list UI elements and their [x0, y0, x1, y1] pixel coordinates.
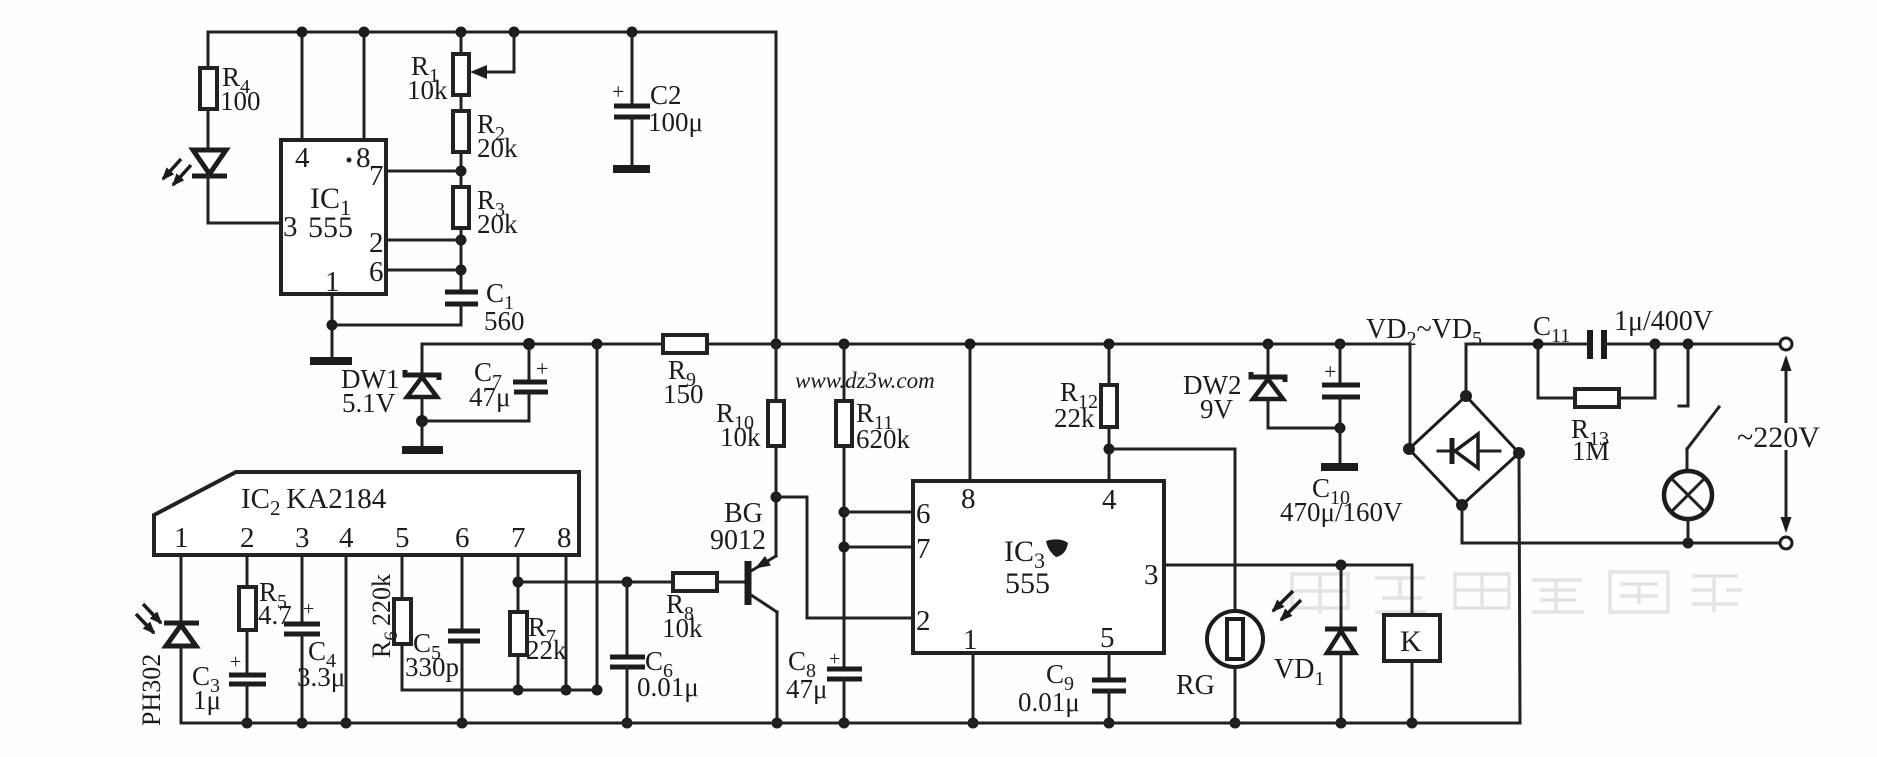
- svg-text:+: +: [230, 651, 241, 673]
- bridge rectifier VD2-VD5: [1403, 344, 1525, 511]
- svg-text:1μ: 1μ: [193, 685, 221, 715]
- watermark www.dz3w.com: [795, 368, 935, 393]
- svg-text:22k: 22k: [526, 635, 567, 665]
- svg-text:555: 555: [308, 211, 353, 244]
- ground bar under C10: [1321, 463, 1358, 471]
- terminal lower: [1780, 537, 1792, 549]
- svg-text:+: +: [612, 79, 624, 104]
- svg-text:10k: 10k: [407, 75, 448, 105]
- resistor R8: [662, 573, 744, 643]
- R1 wiper arrow: [509, 27, 520, 38]
- svg-text:~220V: ~220V: [1737, 421, 1820, 454]
- svg-text:3: 3: [283, 211, 298, 243]
- IC2 KA2184 box: [154, 472, 579, 555]
- watermark chinese characters: [1292, 572, 1742, 614]
- svg-text:PH302: PH302: [137, 654, 166, 726]
- photodiode PH302: [136, 555, 199, 726]
- capacitor C3: [229, 651, 266, 729]
- diode VD1: [1274, 565, 1357, 729]
- wire R12 node to RG: [1109, 449, 1235, 611]
- svg-text:4: 4: [1102, 484, 1117, 516]
- capacitor C11: [1533, 306, 1780, 359]
- svg-text:7: 7: [511, 522, 526, 554]
- wire IC1 pin6: [386, 269, 461, 272]
- potentiometer R1: [407, 27, 520, 106]
- resistor R6: [367, 555, 411, 690]
- wire rail down to IC2 resistor bottoms: [592, 339, 603, 696]
- svg-text:2: 2: [369, 227, 384, 259]
- wire bridge top vertex to AC line: [1466, 344, 1589, 396]
- capacitor C1: [445, 278, 525, 336]
- svg-text:4: 4: [339, 522, 354, 554]
- svg-text:3: 3: [1144, 559, 1159, 591]
- svg-text:9012: 9012: [710, 525, 766, 556]
- capacitor C8: [786, 646, 862, 729]
- capacitor C3 label: [192, 661, 221, 715]
- resistor R3: [453, 185, 518, 291]
- wire IC1 pin2: [386, 239, 461, 242]
- resistor R5: [239, 555, 292, 674]
- ground under IC1: [310, 357, 352, 365]
- svg-text:20k: 20k: [477, 209, 518, 239]
- svg-text:C2: C2: [650, 80, 682, 110]
- capacitor C2: [612, 27, 703, 166]
- svg-text:6: 6: [369, 256, 384, 288]
- svg-text:8: 8: [961, 483, 976, 515]
- resistor R4: [200, 32, 261, 150]
- IC3 555 timer box: [913, 481, 1164, 656]
- svg-text:22k: 22k: [1054, 403, 1095, 433]
- svg-text:1μ/400V: 1μ/400V: [1614, 306, 1713, 337]
- wire C1 bottom to IC1 pin1: [332, 324, 461, 327]
- svg-text:620k: 620k: [856, 424, 911, 454]
- ground rail wire: [181, 722, 1520, 725]
- svg-text:1M: 1M: [1572, 436, 1610, 466]
- infrared emitting LED: [163, 150, 227, 223]
- resistor R10: [716, 344, 784, 503]
- resistor R7: [510, 555, 567, 696]
- wire R11 node to IC3 pin6: [844, 511, 913, 514]
- svg-text:20k: 20k: [477, 133, 518, 163]
- svg-text:0.01μ: 0.01μ: [637, 672, 699, 702]
- resistor R13: [1538, 344, 1655, 466]
- ground bar under C2: [613, 165, 650, 173]
- svg-text:330p: 330p: [405, 652, 459, 682]
- svg-text:2: 2: [916, 605, 931, 637]
- capacitor C10: [1280, 339, 1403, 528]
- wire bridge right vertex to ground rail: [1519, 453, 1520, 723]
- svg-text:7: 7: [916, 533, 931, 565]
- wire resistor-bottom bus: [402, 689, 597, 692]
- svg-text:+: +: [536, 356, 548, 381]
- wire IC2 pin4 to ground rail: [341, 555, 352, 729]
- svg-text:IC2 KA2184: IC2 KA2184: [241, 483, 387, 520]
- svg-text:470μ/160V: 470μ/160V: [1280, 497, 1403, 527]
- transistor BG 9012: [710, 497, 783, 729]
- resistor R9 on rail: [663, 335, 707, 409]
- wire BG emitter node to IC3 pin2: [776, 497, 913, 618]
- svg-text:10k: 10k: [720, 422, 761, 452]
- wire IC1 pin7: [386, 170, 461, 173]
- svg-text:4: 4: [295, 142, 310, 174]
- svg-text:555: 555: [1005, 567, 1050, 600]
- resistor R11: [836, 339, 911, 668]
- svg-text:9V: 9V: [1200, 394, 1234, 424]
- RG light arrows: [1273, 591, 1293, 611]
- zener DW2: [1183, 339, 1346, 434]
- svg-text:0.01μ: 0.01μ: [1018, 687, 1080, 717]
- capacitor C5: [405, 555, 480, 729]
- svg-text:47μ: 47μ: [786, 674, 827, 704]
- svg-text:100μ: 100μ: [648, 107, 703, 137]
- svg-text:RG: RG: [1176, 670, 1215, 701]
- light arrows out: [163, 159, 181, 179]
- svg-text:150: 150: [663, 379, 704, 409]
- relay K: [1384, 615, 1440, 729]
- wire IC2 pin8 down: [561, 555, 572, 696]
- wire R11 node to IC3 pin7: [844, 546, 913, 549]
- label ~220V with arrow: [1736, 355, 1836, 533]
- capacitor C7: [422, 338, 548, 421]
- svg-text:+: +: [303, 598, 314, 620]
- top supply rail wire: [208, 31, 776, 34]
- svg-text:1: 1: [963, 624, 978, 656]
- switch: [1679, 344, 1719, 472]
- capacitor C6: [610, 577, 699, 729]
- capacitor C9: [1018, 653, 1126, 729]
- lamp: [1664, 471, 1712, 549]
- wire LED to IC1 pin 3: [208, 222, 281, 225]
- svg-text:7: 7: [369, 160, 384, 192]
- svg-text:47μ: 47μ: [469, 382, 510, 412]
- wire IC1 pin8 to rail: [359, 27, 370, 141]
- svg-text:3: 3: [295, 522, 310, 554]
- svg-text:8: 8: [557, 522, 572, 554]
- wire bridge bottom vertex to mains neutral: [1462, 505, 1779, 543]
- ground under DW1: [402, 446, 443, 454]
- capacitor C4: [284, 555, 345, 729]
- svg-text:6: 6: [455, 522, 470, 554]
- light arrows in: [143, 604, 161, 623]
- svg-text:1: 1: [174, 522, 189, 554]
- svg-text:5.1V: 5.1V: [342, 388, 396, 418]
- mid supply rail wire: [422, 343, 1410, 346]
- zener DW1: [341, 344, 439, 447]
- label VD2~VD5: [1366, 314, 1482, 350]
- svg-text:2: 2: [240, 522, 255, 554]
- wire IC2 pin7 to R8: [518, 581, 673, 584]
- svg-text:10k: 10k: [662, 613, 703, 643]
- svg-text:www.dz3w.com: www.dz3w.com: [795, 368, 935, 393]
- svg-text:100: 100: [220, 86, 261, 116]
- photoresistor RG: [1176, 591, 1301, 729]
- wire IC1 pin1 down: [327, 294, 338, 359]
- svg-text:+: +: [1324, 359, 1336, 384]
- svg-text:3.3μ: 3.3μ: [297, 662, 345, 692]
- resistor R12: [1054, 339, 1117, 482]
- wire IC1 pin4 to rail: [297, 27, 308, 141]
- svg-text:K: K: [1400, 625, 1422, 658]
- wire top rail right corner down to mid rail: [771, 32, 782, 350]
- resistor R2: [453, 95, 518, 163]
- svg-text:5: 5: [395, 522, 410, 554]
- svg-text:6: 6: [916, 498, 931, 530]
- wire IC3 pin3 to relay branch: [1164, 560, 1412, 616]
- svg-text:5: 5: [1100, 622, 1115, 654]
- svg-text:560: 560: [484, 306, 525, 336]
- node R2/R3 pin7 junction: [456, 152, 467, 187]
- wire IC3 pin1 to ground rail: [968, 653, 979, 729]
- wire IC3 pin8 to rail: [965, 339, 976, 482]
- op IC1 555 timer box: [281, 140, 386, 298]
- terminal upper: [1780, 338, 1792, 350]
